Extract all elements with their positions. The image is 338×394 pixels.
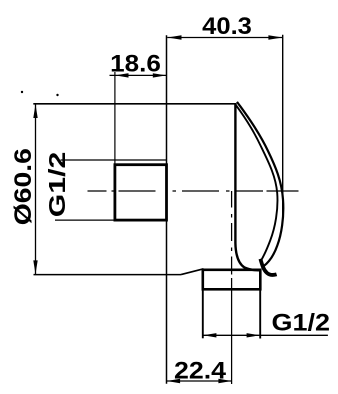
- dome outer profile: [237, 102, 283, 266]
- svg-text:G1/2: G1/2: [272, 310, 331, 337]
- arrow dia60.6 up: [33, 104, 37, 118]
- arrow dia60.6 down: [33, 260, 37, 274]
- arrow 18.6 right: [153, 73, 166, 77]
- arrow 18.6 left: [115, 73, 128, 77]
- inlet port G1/2: [115, 165, 167, 220]
- arrow 22.4 left: [167, 379, 180, 383]
- body bottom chamfer: [181, 269, 204, 275]
- speck dot a: [21, 91, 23, 93]
- extension line 18.6 left: [114, 72, 116, 164]
- thread crest line top: [61, 159, 167, 161]
- arrow G12 right: [247, 333, 260, 337]
- outlet pipe left wall: [202, 289, 204, 338]
- dome inner profile: [236, 105, 278, 262]
- svg-text:40.3: 40.3: [202, 13, 252, 40]
- centerline horizontal: [88, 190, 299, 192]
- outlet pipe right wall: [259, 289, 261, 338]
- speck dot b: [56, 94, 58, 96]
- body bottom edge: [34, 274, 182, 276]
- dim line 22.4: [167, 380, 233, 382]
- body top edge: [33, 103, 236, 105]
- dome base edge: [235, 104, 260, 270]
- dome bottom tip: [260, 259, 276, 275]
- dim line dia 60.6: [35, 104, 37, 275]
- dim line 40.3: [167, 37, 282, 39]
- svg-text:Ø60.6: Ø60.6: [10, 148, 37, 225]
- thread crest line bottom: [55, 219, 115, 221]
- dim line G1/2 bottom with leader: [203, 334, 328, 336]
- body left edge wall line (with dimension extensions above and below): [166, 35, 168, 384]
- arrow 40.3 right: [268, 35, 282, 39]
- svg-text:22.4: 22.4: [174, 358, 227, 385]
- dim line 18.6: [110, 74, 167, 76]
- svg-text:18.6: 18.6: [110, 51, 161, 78]
- outlet collar: [203, 270, 260, 290]
- extension line 40.3 right: [282, 35, 284, 222]
- arrow 22.4 right: [218, 379, 231, 383]
- centerline vertical: [231, 191, 233, 384]
- svg-text:G1/2: G1/2: [44, 152, 70, 218]
- arrow 40.3 left: [168, 35, 182, 39]
- arrow G12 left: [203, 333, 216, 337]
